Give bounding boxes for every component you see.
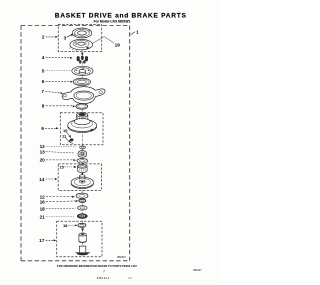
svg-text:18: 18: [63, 223, 68, 228]
callout 14: [39, 177, 57, 182]
svg-text:3: 3: [64, 35, 67, 40]
svg-text:11: 11: [62, 133, 67, 138]
callout 3: [64, 34, 74, 41]
svg-text:17: 17: [39, 238, 45, 243]
part 13 bearing: [78, 151, 87, 158]
callout 15: [59, 164, 76, 169]
part 12 small ring: [80, 146, 86, 149]
callout 17: [39, 238, 56, 243]
callout 7: [41, 89, 63, 94]
svg-text:15: 15: [59, 164, 64, 169]
svg-text:18: 18: [40, 206, 46, 211]
svg-text:2: 2: [42, 35, 45, 40]
title: [55, 13, 187, 20]
dashed assembly border (callout 1 boundary): [21, 26, 130, 261]
callout 20: [40, 158, 76, 163]
callout 9: [41, 126, 58, 131]
svg-text:19: 19: [115, 42, 121, 47]
subtitle model number: [94, 20, 131, 24]
svg-text:4: 4: [42, 55, 45, 60]
corner sheet number: [193, 268, 202, 272]
part 18a ring: [78, 206, 88, 210]
svg-text:5: 5: [42, 68, 45, 73]
footer page number: [103, 270, 105, 274]
callout 2: [42, 35, 58, 40]
svg-text:14: 14: [39, 177, 45, 182]
svg-text:381647: 381647: [193, 268, 202, 272]
callout 8: [42, 104, 76, 109]
centerline arrow top: [81, 53, 84, 56]
part 16 washer: [79, 199, 86, 202]
svg-text:For Model LXG 6801W1: For Model LXG 6801W1: [94, 20, 131, 24]
part 5 bearing washer: [72, 66, 93, 75]
part 21 dark ring: [77, 214, 87, 219]
box for part 9 (brake assembly): [60, 113, 103, 145]
svg-text:6: 6: [42, 79, 45, 84]
brake pad part 10/11: [62, 128, 74, 144]
part number 861847: [117, 255, 126, 259]
part 20 washer: [77, 159, 88, 164]
svg-text:861847: 861847: [117, 255, 126, 259]
part 9 brake / drive assembly: [68, 113, 97, 133]
svg-text:7: 7: [103, 270, 105, 274]
svg-text:20: 20: [40, 158, 46, 163]
callout 21: [40, 214, 75, 219]
centerline arrow above cylinder: [81, 228, 84, 231]
svg-text:4751 21-2: 4751 21-2: [97, 276, 110, 280]
part 12b washer below pulley: [76, 193, 88, 198]
leader lines to callout 19: [92, 37, 120, 48]
footer doc code: [97, 276, 132, 280]
part 3 upper ring: [72, 28, 92, 38]
svg-text:FOR ORDERING INFORMATION REFER: FOR ORDERING INFORMATION REFER TO PARTS …: [57, 264, 137, 268]
svg-text:10: 10: [63, 128, 68, 133]
box for part 14 (pulley group): [58, 164, 101, 191]
svg-text:1: 1: [136, 30, 139, 35]
part 15 spacer: [78, 164, 88, 172]
part 6 seal ring: [73, 78, 90, 86]
callout 16: [40, 199, 79, 204]
callout 18b: [63, 223, 77, 228]
callout 13: [40, 149, 75, 154]
svg-text:16: 16: [40, 199, 46, 204]
callout 4: [42, 55, 73, 60]
box for part 3 (clutch assembly): [58, 25, 101, 52]
callout 18a: [40, 206, 76, 211]
part 4 drive dogs cluster: [77, 56, 88, 64]
svg-text:7: 7: [41, 89, 44, 94]
callout 12: [40, 144, 77, 149]
part 3 lower clutch cup: [69, 39, 92, 51]
svg-text:8: 8: [42, 104, 45, 109]
footer ordering text: [57, 264, 137, 268]
callout 12b: [40, 194, 75, 199]
part 14 pulley: [71, 175, 93, 189]
centerline arrow above pulley: [81, 173, 83, 175]
callout 6: [42, 79, 73, 84]
svg-text:9: 9: [41, 126, 44, 131]
callout 1: [131, 30, 139, 35]
centerline axis: [81, 27, 83, 252]
box for part 17 (shaft group): [57, 221, 102, 256]
part 8 O-ring: [76, 104, 88, 110]
svg-text:21: 21: [40, 214, 46, 219]
part 17 spacer tube: [79, 233, 86, 243]
svg-text:13: 13: [40, 149, 46, 154]
part 7 gearcase cover plate: [62, 87, 105, 104]
callout 5: [42, 68, 70, 73]
part 17 shaft base: [75, 246, 90, 255]
part 18b washer in box: [78, 223, 86, 227]
